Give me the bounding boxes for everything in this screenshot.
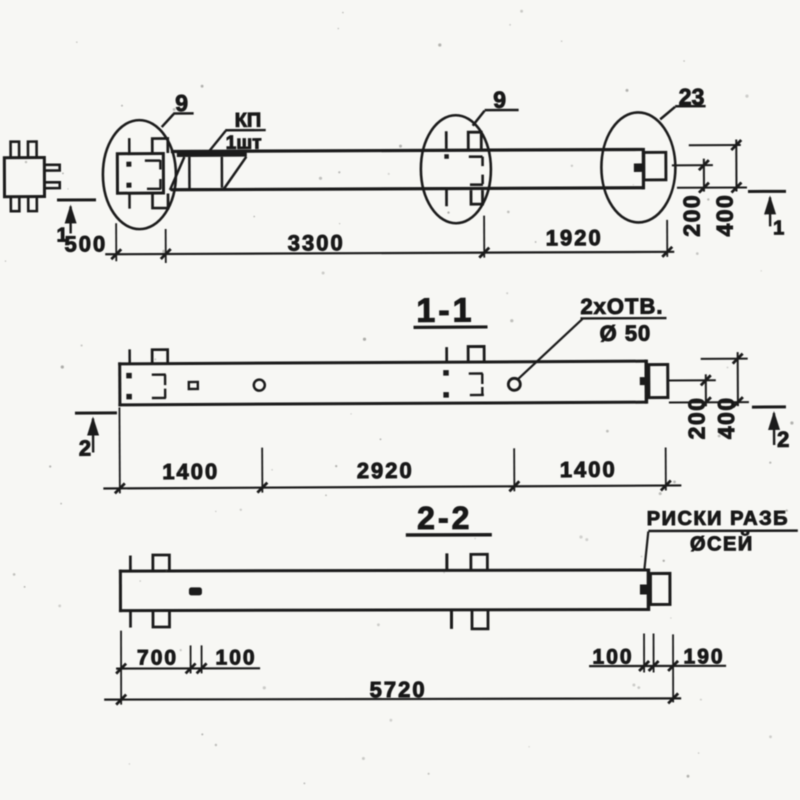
svg-text:ØСЕЙ: ØСЕЙ <box>690 531 754 555</box>
svg-text:1920: 1920 <box>546 225 603 250</box>
svg-text:100: 100 <box>216 646 257 669</box>
svg-text:400: 400 <box>711 194 737 237</box>
bottom dims 1-1: 1400 2920 1400 <box>119 405 665 494</box>
svg-text:КП: КП <box>235 110 262 132</box>
middle detail 2-2 <box>447 553 488 629</box>
right stub 1-1 <box>649 365 668 398</box>
right stub 2-2 <box>650 573 670 604</box>
svg-text:2: 2 <box>777 427 789 452</box>
right vertical dims 200/400 (plan) <box>672 139 747 191</box>
svg-text:1шт: 1шт <box>226 133 262 154</box>
svg-text:2-2: 2-2 <box>417 500 472 536</box>
left detail 1-1 <box>126 349 198 399</box>
plate dots <box>126 162 131 167</box>
label KP 1sht <box>208 110 266 154</box>
svg-text:Ø 50: Ø 50 <box>599 321 651 346</box>
beam outline 2-2 <box>119 568 649 612</box>
holes 2x d50 <box>254 380 265 391</box>
label 23 <box>660 84 706 120</box>
svg-text:700: 700 <box>137 646 178 669</box>
svg-text:5720: 5720 <box>370 677 427 702</box>
bottom dims (plan): 500 3300 1920 <box>116 215 667 263</box>
label 9 (left) <box>162 90 194 127</box>
section 2 cut mark (right of 1-1) <box>752 407 789 452</box>
left end plate <box>117 154 163 194</box>
svg-text:2920: 2920 <box>357 458 414 483</box>
trapezoid piece KP <box>170 150 247 190</box>
end-view square (far left cross section) <box>4 141 60 211</box>
label 2xOTV d50 <box>517 294 666 380</box>
section 1 cut mark (right) <box>748 191 786 239</box>
label 9 (middle) <box>473 86 519 125</box>
svg-text:190: 190 <box>684 645 725 668</box>
bottom dims 2-2 row1 left: 700 100 <box>121 630 202 704</box>
right vertical dims 200/400 (1-1) <box>669 352 749 406</box>
svg-text:1: 1 <box>773 217 784 239</box>
svg-text:500: 500 <box>64 231 107 256</box>
svg-text:9: 9 <box>175 90 188 116</box>
svg-text:2хОТВ.: 2хОТВ. <box>580 294 663 319</box>
svg-text:1-1: 1-1 <box>416 292 474 330</box>
plate top tab <box>152 139 168 154</box>
svg-text:9: 9 <box>493 87 506 113</box>
plate bottom tick <box>128 194 131 209</box>
bottom dims 2-2 row1 right: 100 190 <box>644 633 673 702</box>
svg-text:200: 200 <box>678 194 704 237</box>
middle detail 1-1 <box>443 346 484 397</box>
plate corner brackets <box>145 160 161 170</box>
middle balloon oval 9 <box>421 115 491 223</box>
bottom dims 2-2 row2: 5720 <box>104 698 681 699</box>
label RISKI RAZB OSEY <box>644 508 798 570</box>
left balloon oval 9 <box>103 120 176 229</box>
svg-text:РИСКИ РАЗБ: РИСКИ РАЗБ <box>647 508 789 530</box>
svg-text:2: 2 <box>79 436 91 461</box>
svg-text:1400: 1400 <box>162 459 219 484</box>
svg-text:400: 400 <box>713 396 739 439</box>
middle detail (plan) <box>444 131 483 206</box>
beam outline 1-1 <box>118 360 647 407</box>
svg-text:1400: 1400 <box>560 457 617 482</box>
svg-text:200: 200 <box>683 396 709 439</box>
right end small tab <box>634 163 644 172</box>
left detail 2-2 <box>130 555 202 628</box>
plate bottom tab <box>152 194 168 209</box>
beam outline (plan) <box>171 148 644 192</box>
svg-text:3300: 3300 <box>288 230 345 255</box>
plate top tick <box>128 138 131 153</box>
right end stub (plan) <box>644 152 666 180</box>
section 2 cut mark (left of 1-1) <box>75 413 117 461</box>
svg-text:100: 100 <box>593 646 634 669</box>
right balloon oval 23 <box>601 112 675 222</box>
section 1 cut mark (left) <box>56 200 96 247</box>
